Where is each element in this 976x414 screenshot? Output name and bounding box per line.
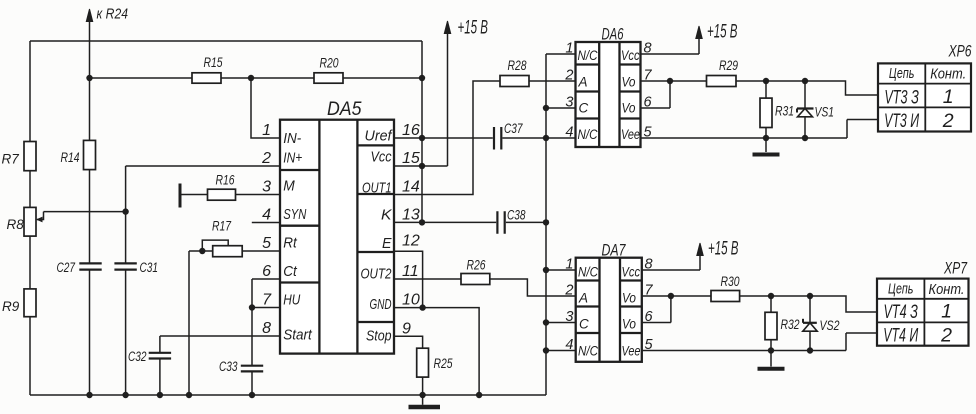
- svg-text:N/C: N/C: [578, 265, 598, 280]
- resistor R17 (trimmer): [213, 246, 243, 257]
- DA7 pin3 name C: [579, 317, 589, 332]
- svg-text:+15 В: +15 В: [707, 22, 738, 43]
- svg-text:VS1: VS1: [815, 105, 835, 120]
- junction R14/R15/к-R24: [86, 75, 92, 81]
- resistor R30: [711, 291, 740, 302]
- wire: pin4 SYN stub: [252, 222, 280, 224]
- label R32: [781, 317, 800, 332]
- wire: pin2 IN+ to wiper node: [126, 165, 280, 167]
- svg-text:Uref: Uref: [365, 129, 394, 145]
- label R7: [2, 152, 20, 167]
- wire: R17 left leg to bus: [188, 251, 190, 395]
- svg-text:к R24: к R24: [97, 7, 129, 23]
- label R26: [467, 258, 486, 273]
- svg-text:R31: R31: [775, 104, 794, 119]
- svg-text:DA5: DA5: [327, 99, 362, 120]
- wire: pin14 OUT1 jog to R28: [394, 81, 500, 195]
- XP6 row1 circuit VT3 З: [884, 86, 919, 108]
- svg-text:C: C: [579, 317, 589, 332]
- svg-text:Vo: Vo: [622, 291, 636, 306]
- label DA6: [602, 26, 625, 44]
- resistor R32: [765, 312, 777, 339]
- svg-text:Vo: Vo: [622, 101, 636, 116]
- DA7 pin2 name A: [578, 291, 588, 306]
- label DA7: [602, 241, 626, 260]
- DA5 pin 9 name Stop: [366, 328, 392, 344]
- wire: DA7 pin3 stub: [546, 322, 576, 324]
- wire: R16 to pin3 M: [236, 194, 281, 196]
- wire: pin1 IN- drop: [251, 78, 280, 138]
- junction common/DA6 pin3: [543, 105, 549, 111]
- label VS2: [820, 318, 840, 333]
- wire: supply vertical (top bus to K): [421, 41, 423, 222]
- wire: R26 jog to DA7 pin2: [490, 279, 576, 296]
- terminal bar at R16: [179, 184, 182, 208]
- svg-text:SYN: SYN: [283, 207, 306, 223]
- junction Vee/VS2: [807, 347, 813, 353]
- svg-text:VT4 З: VT4 З: [883, 301, 918, 323]
- DA6 pin4 name N/C: [578, 127, 598, 142]
- svg-text:HU: HU: [283, 293, 300, 309]
- svg-text:1: 1: [943, 86, 954, 108]
- svg-text:GND: GND: [370, 297, 392, 313]
- svg-text:E: E: [382, 236, 392, 252]
- wire: bottom ground bus: [30, 394, 546, 396]
- label +15 В (DA5): [458, 18, 489, 39]
- wire: pin12 E jog to GND line: [394, 251, 423, 307]
- resistor R7: [24, 142, 36, 171]
- svg-text:2: 2: [261, 150, 271, 167]
- label R16: [216, 173, 235, 188]
- DA5 pin 1 name IN-: [283, 131, 301, 147]
- DA5 pin 10 name GND: [370, 297, 392, 313]
- DA5 pin number 13: [402, 206, 420, 223]
- svg-text:Start: Start: [283, 328, 312, 344]
- junction common/DA7 pin4: [543, 347, 549, 353]
- svg-text:R26: R26: [467, 258, 486, 273]
- svg-text:3: 3: [262, 179, 271, 196]
- wire: pin16 Uref line to C37: [394, 137, 493, 139]
- junction gate line/R32: [768, 293, 774, 299]
- DA5 pin 12 name E: [382, 236, 392, 252]
- svg-text:4: 4: [565, 125, 573, 141]
- svg-text:2: 2: [940, 325, 952, 347]
- connector XP6 frame: [878, 63, 971, 131]
- svg-text:2: 2: [564, 283, 573, 299]
- wire: C38 to common vertical: [506, 221, 546, 223]
- svg-text:A: A: [578, 291, 588, 306]
- svg-text:16: 16: [402, 122, 420, 139]
- DA7 pin6 name Vo: [622, 317, 636, 332]
- DA6 pin number 7: [644, 68, 653, 84]
- DA6 compartment dividers: [576, 65, 641, 119]
- wire: DA6 pin6 Vo tie: [641, 81, 671, 108]
- label C32: [128, 349, 147, 364]
- DA7 pin number 7: [645, 283, 654, 299]
- resistor R20: [314, 73, 343, 83]
- wire: R31 top leg: [765, 81, 767, 98]
- DA6 pin number 4: [565, 125, 573, 141]
- svg-text:C38: C38: [507, 208, 526, 223]
- resistor R26: [461, 274, 490, 285]
- DA6 pin3 name C: [579, 101, 589, 116]
- DA7 pin1 name N/C: [578, 265, 598, 280]
- DA7 pin7 name Vo: [622, 291, 636, 306]
- junction GND drop to bus: [476, 392, 482, 398]
- resistor R28: [500, 76, 529, 87]
- DA7 pin number 3: [565, 309, 573, 325]
- svg-text:7: 7: [262, 292, 272, 309]
- DA6 pin1 name N/C: [578, 48, 598, 63]
- DA5 pin number 8: [262, 320, 271, 337]
- XP7 row2 circuit VT4 И: [883, 325, 918, 347]
- svg-text:5: 5: [262, 235, 271, 252]
- DA7 pin number 6: [645, 309, 654, 325]
- svg-text:C37: C37: [504, 121, 523, 136]
- svg-text:11: 11: [402, 263, 419, 280]
- connector XP7 frame: [877, 279, 969, 346]
- DA5 pin number 15: [402, 150, 420, 167]
- wire: DA7 pin5 Vee line: [642, 333, 877, 351]
- svg-text:K: K: [381, 208, 393, 224]
- DA5 pin 6 name Ct: [283, 264, 297, 280]
- DA7 pin number 5: [645, 337, 654, 353]
- svg-text:VT4 И: VT4 И: [883, 325, 918, 347]
- svg-text:R8: R8: [7, 217, 25, 232]
- wire: R25 to bus: [422, 377, 424, 395]
- svg-text:R14: R14: [61, 150, 80, 165]
- svg-text:Vee: Vee: [622, 344, 641, 359]
- DA5 pin number 10: [402, 292, 420, 309]
- DA6 pin number 5: [644, 125, 653, 141]
- svg-text:10: 10: [402, 292, 420, 309]
- XP6 row2 contact 2: [942, 110, 954, 132]
- label R17: [212, 219, 231, 234]
- power arrow +15V (DA7): [697, 243, 703, 256]
- wire: R30 to XP7 pin1: [740, 296, 877, 312]
- label R14: [61, 150, 80, 165]
- DA5 pin number 1: [262, 122, 271, 139]
- op-amp controller DA5 body: [280, 120, 394, 354]
- svg-text:Конт.: Конт.: [930, 67, 966, 83]
- resistor R29: [707, 76, 737, 87]
- DA5 pin number 12: [402, 232, 420, 249]
- svg-text:9: 9: [402, 320, 411, 337]
- resistor R14: [84, 140, 96, 169]
- XP6 row1 contact 1: [943, 86, 954, 108]
- capacitor C33: [241, 366, 263, 372]
- DA6 pin number 3: [565, 95, 573, 111]
- junction bus/R25: [419, 392, 425, 398]
- ground symbol under R31: [753, 138, 780, 155]
- wire: R15-R20 feed line: [90, 77, 423, 79]
- junction supply/Uref: [419, 135, 425, 141]
- junction Ct/HU: [249, 304, 255, 310]
- svg-text:8: 8: [262, 320, 271, 337]
- svg-text:OUT2: OUT2: [361, 267, 392, 283]
- XP6 row2 circuit VT3 И: [884, 110, 919, 132]
- XP7 header Конт.: [929, 282, 965, 298]
- capacitor C38: [497, 211, 504, 234]
- junction Vee/VS1: [802, 135, 808, 141]
- svg-text:Vcc: Vcc: [621, 48, 640, 63]
- DA5 pin 16 name Uref: [365, 129, 394, 145]
- label R30: [721, 274, 740, 289]
- wire: R32 bottom leg: [770, 340, 772, 351]
- DA5 pin number 14: [402, 179, 420, 196]
- junction gate line/VS2: [807, 293, 813, 299]
- zener diode VS2: [803, 296, 817, 351]
- wire: C37 to DA6 N/C column: [503, 137, 576, 139]
- label +15 В (DA6): [707, 22, 738, 43]
- DA5 pin number 16: [402, 122, 420, 139]
- label R8: [7, 217, 25, 232]
- junction DA7 Vo pins tie: [668, 293, 674, 299]
- junction Vee/R32: [768, 347, 774, 353]
- wire: R29 to XP6 pin1: [736, 81, 878, 95]
- label R25: [434, 356, 453, 371]
- wire: DA7 pin8 Vcc to +15V: [642, 256, 700, 271]
- svg-text:13: 13: [402, 206, 420, 223]
- junction gate line/VS1: [802, 78, 808, 84]
- wire: DA6 pin7 Vo line: [641, 80, 707, 82]
- resistor R25: [417, 348, 429, 377]
- resistor R31: [760, 98, 772, 127]
- svg-text:Vo: Vo: [622, 75, 636, 90]
- junction Vee/R31: [763, 135, 769, 141]
- DA7 pin number 8: [645, 257, 653, 273]
- label R15: [204, 55, 223, 70]
- label C37: [504, 121, 523, 136]
- DA6 pin number 1: [565, 41, 573, 57]
- wire: pin8 Start branch: [160, 336, 280, 395]
- wire: R31 bottom leg: [765, 128, 767, 139]
- DA7 pin4 name N/C: [578, 344, 598, 359]
- label C27: [57, 260, 76, 275]
- svg-text:XP7: XP7: [943, 260, 967, 278]
- power arrow +15V (DA5): [444, 21, 450, 34]
- svg-text:Vo: Vo: [622, 317, 636, 332]
- svg-text:Vee: Vee: [621, 127, 640, 142]
- svg-text:R28: R28: [508, 58, 527, 73]
- svg-text:+15 В: +15 В: [708, 239, 739, 260]
- label R29: [719, 58, 738, 73]
- wire: DA6 pin5 Vee line: [641, 120, 879, 139]
- svg-text:IN-: IN-: [283, 131, 301, 147]
- wire: DA7 pin7 Vo line: [642, 295, 711, 297]
- svg-text:Stop: Stop: [366, 328, 392, 344]
- junction bus/R17 leg: [186, 392, 192, 398]
- junction common/C37 line: [543, 135, 549, 141]
- DA7 compartment dividers: [576, 281, 642, 334]
- label DA5: [327, 99, 362, 120]
- DA6 pin number 6: [644, 95, 653, 111]
- junction Vo pins tie: [667, 78, 673, 84]
- DA6 pin number 2: [564, 68, 573, 84]
- svg-text:R25: R25: [434, 356, 453, 371]
- wire: pin15 Vcc to +15V: [394, 33, 448, 166]
- label R28: [508, 58, 527, 73]
- svg-text:DA6: DA6: [602, 26, 625, 44]
- DA5 right column dividers: [357, 145, 394, 322]
- junction R17 tap: [199, 248, 205, 254]
- junction R15/R20 to pin1: [248, 75, 254, 81]
- DA5 pin 14 name OUT1: [362, 181, 392, 197]
- DA5 pin number 6: [262, 263, 271, 280]
- DA6 pin2 name A: [578, 75, 588, 90]
- wire: DA7 pin6 Vo tie: [642, 296, 671, 323]
- wiper of R8: [36, 212, 44, 223]
- label XP7: [943, 260, 967, 278]
- wire: pin10 GND line: [394, 308, 479, 395]
- svg-text:N/C: N/C: [578, 344, 598, 359]
- DA5 pin 13 name K: [381, 208, 393, 224]
- XP7 row2 contact 2: [940, 325, 952, 347]
- DA5 left column dividers: [280, 170, 319, 283]
- svg-text:R7: R7: [2, 152, 20, 167]
- wire: R8 wiper tap to C31/IN+ node: [44, 211, 126, 213]
- label R9: [2, 299, 20, 314]
- zener diode VS1: [797, 81, 814, 138]
- wire: DA6 pin1 stub: [546, 53, 576, 55]
- DA6 inner column lines: [599, 42, 619, 147]
- label R31: [775, 104, 794, 119]
- junction common/C38 line: [543, 219, 549, 225]
- label C38: [507, 208, 526, 223]
- svg-text:1: 1: [262, 122, 271, 139]
- wire: top bus from R7 top to DA5 supply vertical: [30, 40, 422, 42]
- junction bus/C32: [157, 392, 163, 398]
- XP7 column divider: [923, 279, 925, 346]
- wire: pin6 Ct branch: [252, 279, 280, 395]
- svg-text:OUT1: OUT1: [362, 181, 392, 197]
- svg-text:2: 2: [564, 68, 573, 84]
- wire: pin7 HU stub: [252, 307, 280, 309]
- DA5 pin number 2: [261, 150, 271, 167]
- svg-text:C32: C32: [128, 349, 147, 364]
- svg-text:A: A: [578, 75, 588, 90]
- resistor R15: [192, 73, 221, 83]
- svg-text:Цепь: Цепь: [888, 281, 914, 297]
- XP6 header Цепь: [889, 66, 915, 82]
- wiper tap of R17: [202, 240, 228, 251]
- DA5 pin number 9: [402, 320, 411, 337]
- DA5 pin 8 name Start: [283, 328, 312, 344]
- DA5 pin number 3: [262, 179, 271, 196]
- XP6 header Конт.: [930, 67, 966, 83]
- optocoupler driver DA6 body: [576, 42, 641, 147]
- wire: pin13 K line to C38: [394, 221, 496, 223]
- wire: C31 branch: [125, 166, 127, 395]
- svg-text:R15: R15: [204, 55, 223, 70]
- svg-text:DA7: DA7: [602, 241, 626, 260]
- junction E/GND: [419, 304, 425, 310]
- junction common/DA7 pin1: [543, 267, 549, 273]
- DA5 pin 4 name SYN: [283, 207, 306, 223]
- power arrow к R24: [86, 9, 92, 22]
- svg-text:R17: R17: [212, 219, 231, 234]
- junction supply/Vcc: [419, 163, 425, 169]
- svg-text:VS2: VS2: [820, 318, 840, 333]
- junction supply/K: [419, 219, 425, 225]
- svg-text:C: C: [579, 101, 589, 116]
- svg-text:R20: R20: [320, 56, 339, 71]
- label к R24: [97, 7, 129, 23]
- svg-text:Конт.: Конт.: [929, 282, 965, 298]
- XP6 column divider: [924, 63, 926, 131]
- XP7 row1 circuit VT4 З: [883, 301, 918, 323]
- wire: pin9 Stop to R25: [394, 336, 423, 348]
- svg-text:N/C: N/C: [578, 127, 598, 142]
- wire: bar to R16: [180, 194, 208, 196]
- svg-text:Ct: Ct: [283, 264, 297, 280]
- label VS1: [815, 105, 835, 120]
- power arrow +15V (DA6): [696, 26, 702, 39]
- resistor R8 (trimmer): [24, 207, 36, 236]
- label C31: [140, 260, 159, 275]
- DA5 pin number 11: [402, 263, 419, 280]
- wire: R32 top leg: [770, 296, 772, 312]
- wire: DA6 pin8 Vcc to +15V: [641, 39, 700, 55]
- wire: common N/C-C vertical (DA6/DA7): [545, 54, 547, 395]
- svg-text:N/C: N/C: [578, 48, 598, 63]
- svg-text:Rt: Rt: [283, 236, 297, 252]
- junction bus/C31: [122, 392, 128, 398]
- DA5 pin 15 name Vcc: [371, 150, 393, 166]
- resistor R16: [208, 189, 236, 200]
- capacitor C32: [149, 353, 171, 359]
- svg-text:6: 6: [262, 263, 271, 280]
- svg-text:R30: R30: [721, 274, 740, 289]
- svg-text:C31: C31: [140, 260, 159, 275]
- junction feed line to supply vertical: [419, 75, 425, 81]
- resistor R9: [24, 289, 36, 317]
- capacitor C27: [79, 263, 101, 269]
- svg-text:C27: C27: [57, 260, 76, 275]
- XP7 header Цепь: [888, 281, 914, 297]
- junction wiper/C31/IN+: [122, 208, 128, 214]
- DA5 pin number 5: [262, 235, 271, 252]
- wire: pin11 OUT2 to R26: [394, 278, 461, 280]
- svg-text:Vcc: Vcc: [622, 265, 641, 280]
- svg-text:M: M: [283, 179, 295, 195]
- junction gate line/R31: [763, 78, 769, 84]
- DA7 pin number 2: [564, 283, 573, 299]
- DA5 pin 2 name IN+: [283, 151, 302, 167]
- DA7 pin number 4: [565, 337, 573, 353]
- label R20: [320, 56, 339, 71]
- wire: DA6 pin3 stub: [546, 107, 576, 109]
- label XP6: [948, 43, 972, 61]
- XP6 row lines: [878, 84, 971, 108]
- DA5 pin 3 name M: [283, 179, 295, 195]
- DA5 pin 5 name Rt: [283, 236, 297, 252]
- wire: R28 to DA6 pin2: [529, 80, 576, 82]
- DA5 inner column lines: [319, 120, 357, 354]
- node: к R24 riser (arrow to R14/R15 junction): [89, 20, 91, 395]
- svg-text:Цепь: Цепь: [889, 66, 915, 82]
- DA5 pin number 4: [262, 207, 271, 224]
- DA6 pin7 name Vo: [622, 75, 636, 90]
- junction bus/C33: [249, 392, 255, 398]
- ground symbol under R32: [758, 351, 785, 369]
- label +15 В (DA7): [708, 239, 739, 260]
- XP7 row1 contact 1: [941, 301, 952, 323]
- svg-text:R29: R29: [719, 58, 738, 73]
- wire: pin5 Rt line: [189, 250, 280, 252]
- optocoupler driver DA7 body: [576, 258, 642, 362]
- svg-text:VT3 И: VT3 И: [884, 110, 919, 132]
